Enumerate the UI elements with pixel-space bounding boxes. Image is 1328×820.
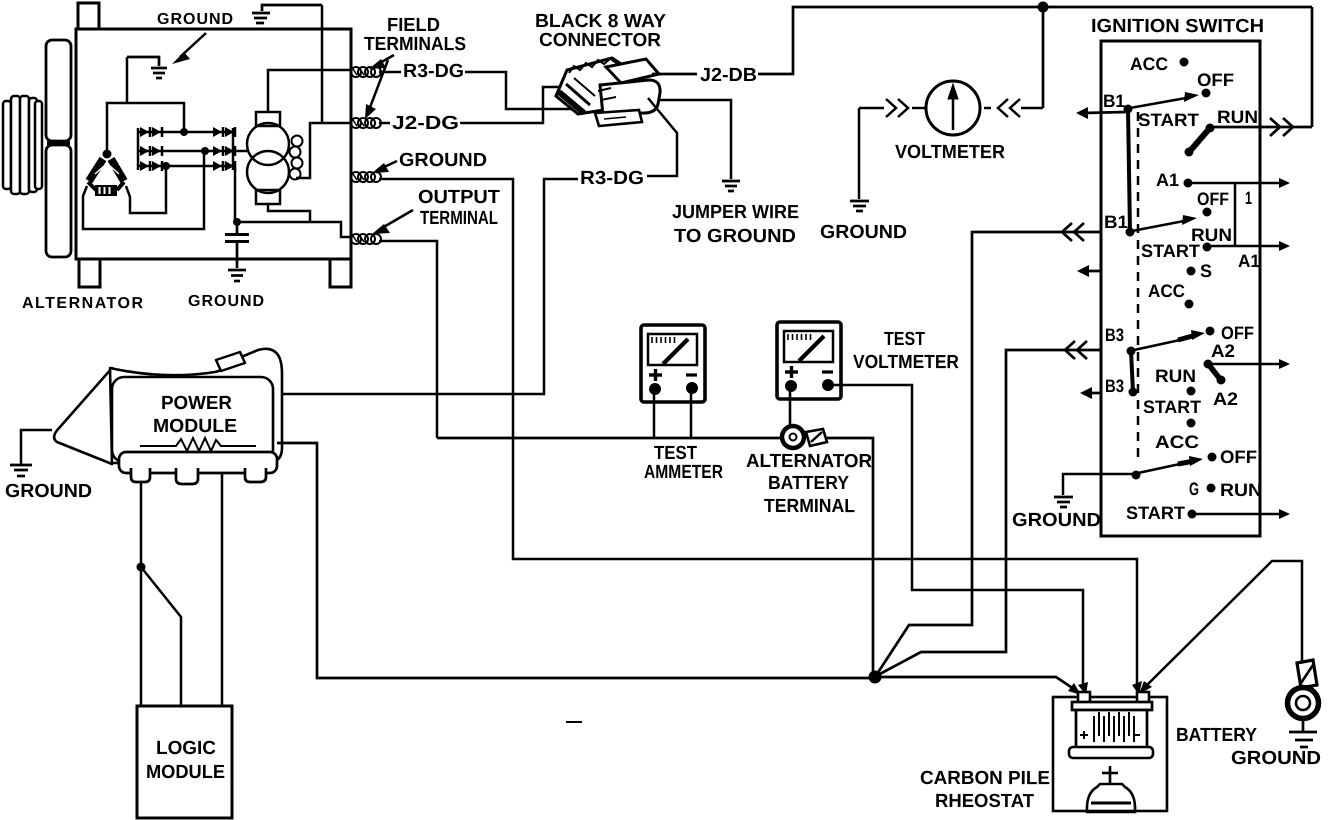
switch lever B1-OFF row2 (1132, 215, 1197, 231)
svg-text:GROUND: GROUND (5, 481, 92, 502)
svg-text:CARBON PILE: CARBON PILE (920, 768, 1050, 789)
wire output terminal to ammeter bus (379, 241, 437, 438)
node contact B3 row5 (1129, 388, 1138, 397)
wire J2-DB connector to top bus (652, 7, 1312, 74)
wire ammeter plus lead (653, 393, 656, 438)
svg-text:ALTERNATOR: ALTERNATOR (22, 295, 145, 312)
svg-text:START: START (1126, 503, 1185, 523)
switch lever RUN thick (1190, 129, 1209, 151)
node contact A2 lever end (1217, 376, 1226, 385)
wire rectifier output bus down (234, 168, 237, 221)
wire B3 link row4-row5 (thick) (1131, 351, 1133, 392)
terminal field 2 (J2-DG) (351, 118, 381, 128)
wire A2 exit (1212, 359, 1290, 369)
wire output node to output terminal (237, 222, 352, 237)
wire stator right phase to rectifier row3 (126, 167, 166, 213)
svg-text:RUN: RUN (1155, 366, 1196, 386)
svg-text:BATTERY: BATTERY (1176, 725, 1257, 746)
wire power module pin1 to logic module (140, 482, 143, 706)
label CARBON PILE RHEOSTAT (920, 768, 1050, 812)
svg-text:BLACK 8 WAY: BLACK 8 WAY (535, 11, 666, 32)
node contact A2 row4 (1204, 360, 1213, 369)
svg-text:GROUND: GROUND (399, 150, 487, 171)
node contact B1 row1 (1124, 105, 1133, 114)
label LOGIC MODULE (146, 738, 225, 783)
node pin1 branch (137, 563, 146, 572)
terminal ground (351, 172, 381, 182)
wire rotor top to field terminal R3-DG (268, 70, 352, 112)
wire voltmeter right chevrons (984, 99, 1043, 117)
stator winding (delta) (88, 150, 124, 197)
label TEST VOLTMETER (853, 329, 959, 373)
arrow B3 row5 exit left (1080, 387, 1101, 399)
wire START row7 exit (1196, 509, 1290, 519)
wire voltmeter left to ground (859, 99, 926, 199)
svg-text:AMMETER: AMMETER (644, 462, 723, 483)
alternator pulley (3, 96, 42, 194)
alternator case U1 (76, 3, 351, 287)
node rectifier row1 (180, 128, 188, 136)
wire rotor bottom to output node (268, 204, 310, 222)
svg-text:R3-DG: R3-DG (580, 168, 644, 189)
svg-text:RUN: RUN (1220, 480, 1262, 500)
node contact ACC row1 (1180, 58, 1189, 67)
svg-text:OFF: OFF (1197, 189, 1229, 209)
terminal output (351, 234, 381, 244)
battery polarity marks (1080, 731, 1140, 739)
svg-text:GROUND: GROUND (820, 222, 907, 243)
label POWER MODULE (153, 393, 237, 437)
ground (below alternator) (228, 270, 246, 281)
connector 8-way pictorial (556, 58, 660, 126)
node contact ACC row3 (1185, 300, 1194, 309)
svg-text:RHEOSTAT: RHEOSTAT (935, 791, 1034, 812)
svg-text:ALTERNATOR: ALTERNATOR (746, 451, 872, 472)
svg-text:START: START (1141, 241, 1200, 261)
arrow to field terminal 2 (365, 60, 388, 119)
arrow S exit left (1077, 265, 1101, 277)
wire battery negative to ground eyelet (1141, 561, 1302, 691)
wire B3 row4 to junction (878, 341, 1101, 675)
arrow B1 row1 exit left (1076, 107, 1126, 119)
svg-text:A1: A1 (1238, 251, 1260, 271)
svg-text:B3: B3 (1105, 376, 1124, 396)
ground (voltmeter) (850, 201, 869, 211)
node contact RUN row7 (1207, 484, 1216, 493)
svg-text:FIELD: FIELD (387, 15, 440, 36)
svg-text:TERMINAL: TERMINAL (420, 208, 498, 229)
wire test voltmeter minus to battery positive (832, 385, 1083, 686)
battery plates (1094, 712, 1134, 742)
power module flange and pins (119, 452, 277, 484)
switch lever B3-OFF row4 (thick) (1134, 327, 1215, 351)
svg-text:GROUND: GROUND (188, 293, 265, 310)
rotor brush spring (290, 136, 303, 180)
node contact lever top (1206, 124, 1215, 133)
svg-text:A2: A2 (1213, 389, 1238, 409)
wire RUN row2 exit (1211, 241, 1290, 251)
wire eyelet to junction (826, 438, 873, 674)
arrow from GROUND label to inner ground (172, 33, 206, 64)
wire test voltmeter plus to eyelet (789, 390, 792, 426)
svg-text:MODULE: MODULE (153, 416, 237, 437)
svg-text:TO GROUND: TO GROUND (674, 226, 796, 247)
terminal field 1 (R3-DG) (351, 67, 381, 77)
svg-text:GROUND: GROUND (1231, 748, 1321, 769)
switch lever ground-OFF row6 (1138, 456, 1203, 473)
test voltmeter M3 (777, 322, 841, 399)
wire ammeter minus lead (690, 393, 693, 438)
node rectifier row2 (201, 147, 209, 155)
wire power module right foot to junction (277, 443, 869, 678)
svg-text:BATTERY: BATTERY (768, 473, 849, 494)
svg-text:S: S (1200, 261, 1212, 281)
arrowhead battery positive (voltmeter wire) (1078, 682, 1088, 695)
wire top bus to voltmeter (1042, 7, 1045, 108)
rectifier diodes (140, 127, 235, 171)
svg-text:ACC: ACC (1148, 281, 1185, 301)
rotor field coil (247, 112, 289, 204)
wire junction to battery positive (875, 677, 1077, 691)
node rectifier row3 (162, 162, 170, 170)
ignition switch box S1 (1101, 41, 1260, 536)
svg-text:VOLTMETER: VOLTMETER (853, 352, 959, 373)
label FIELD TERMINALS (364, 15, 466, 55)
wire top ground into case (321, 5, 324, 123)
arrow to field terminal 1 (369, 55, 394, 69)
node capacitor junction (233, 218, 241, 226)
wire R3-DG terminal to connector (379, 72, 578, 109)
arrowhead battery negative (case ground wire) (1132, 681, 1142, 695)
svg-text:IGNITION SWITCH: IGNITION SWITCH (1091, 16, 1264, 37)
ground (battery) (1289, 719, 1317, 747)
svg-text:B3: B3 (1105, 325, 1124, 345)
svg-text:TERMINALS: TERMINALS (364, 34, 466, 55)
logic module box (137, 706, 232, 818)
ground (ignition switch) (1054, 497, 1073, 507)
svg-text:VOLTMETER: VOLTMETER (895, 142, 1005, 163)
node contact START row7 (1188, 510, 1197, 519)
stray dash (566, 721, 582, 723)
voltmeter M1 (926, 81, 980, 135)
alternator battery terminal eyelet (782, 426, 827, 448)
wire R3-DG connector to power module (282, 98, 677, 394)
ground (power module) (10, 465, 32, 476)
ground (inside alternator) (127, 57, 167, 78)
svg-text:B1: B1 (1104, 212, 1128, 232)
switch lever B1-OFF row1 (1130, 92, 1199, 108)
node contact OFF row6 (1208, 453, 1217, 462)
wire A1 sub-box (1234, 183, 1237, 246)
svg-text:ACC: ACC (1130, 54, 1168, 74)
svg-text:LOGIC: LOGIC (156, 738, 216, 759)
battery ground eyelet (1288, 660, 1319, 719)
svg-text:TERMINAL: TERMINAL (764, 496, 855, 517)
node contact lever bottom (1185, 148, 1194, 157)
label OUTPUT TERMINAL (418, 187, 500, 229)
label BLACK 8 WAY CONNECTOR (535, 11, 666, 51)
svg-text:MODULE: MODULE (146, 762, 225, 783)
switch lever A2 thick (1209, 365, 1220, 379)
wire B1 row2 to junction (877, 223, 1101, 674)
wire field terminal J2-DG to brush (296, 123, 352, 178)
node main junction (869, 671, 882, 684)
label JUMPER WIRE TO GROUND (672, 202, 799, 247)
svg-text:JUMPER WIRE: JUMPER WIRE (672, 202, 799, 223)
capacitor C1 to ground (225, 222, 249, 268)
wire connector jumper to ground (658, 100, 731, 179)
ground (top of alternator) (252, 5, 322, 23)
carbon pile rheostat box (1053, 697, 1167, 811)
node contact RUN row5 (1187, 387, 1196, 396)
node contact ground lever (1132, 471, 1141, 480)
power module outline (54, 349, 282, 464)
svg-text:OFF: OFF (1197, 70, 1234, 90)
svg-text:OFF: OFF (1220, 447, 1257, 467)
svg-text:GROUND: GROUND (1012, 510, 1101, 531)
label ALTERNATOR BATTERY TERMINAL (746, 451, 872, 517)
arrow to output terminal (372, 210, 413, 234)
svg-text:1: 1 (1245, 188, 1252, 208)
node contact RUN row2 (1203, 243, 1212, 252)
wire power module pin2 to logic module (221, 473, 224, 706)
svg-text:OUTPUT: OUTPUT (418, 187, 500, 208)
node contact B1 row2 (1126, 228, 1135, 237)
arrow to ground terminal (372, 161, 397, 173)
ground (jumper wire) (722, 181, 740, 191)
battery BT1 (1069, 692, 1153, 758)
alternator fan plate (46, 40, 71, 257)
node contact OFF row1 (1202, 89, 1211, 98)
power module zigzag (140, 438, 256, 451)
wire stator left phase to rectifier row2 (83, 152, 204, 229)
svg-text:G: G (1189, 479, 1199, 499)
svg-text:START: START (1143, 397, 1201, 417)
test ammeter M2 (641, 325, 705, 402)
svg-text:R3-DG: R3-DG (403, 61, 464, 82)
svg-text:CONNECTOR: CONNECTOR (539, 30, 661, 51)
wire inner ground to stator bus (126, 57, 129, 104)
arrowhead battery negative (eyelet wire) (1139, 681, 1152, 694)
svg-text:START: START (1138, 110, 1199, 130)
node contact B3 row4 (1127, 347, 1136, 356)
wire ground lever to ground (1063, 474, 1134, 495)
svg-text:J2-DB: J2-DB (700, 65, 757, 86)
node contact A1 (1184, 179, 1193, 188)
svg-text:TEST: TEST (654, 443, 697, 464)
ignition switch dashed divider (1137, 112, 1140, 464)
node contact START row5 (1187, 419, 1196, 428)
node contact S (1187, 267, 1196, 276)
wire rectifier to rotor brush (233, 150, 247, 153)
svg-text:RUN: RUN (1217, 107, 1258, 127)
node top bus junction (1038, 2, 1049, 13)
label TEST AMMETER (644, 443, 723, 483)
svg-text:J2-DG: J2-DG (392, 113, 459, 134)
svg-text:ACC: ACC (1155, 432, 1199, 452)
svg-text:POWER: POWER (161, 393, 232, 414)
wire pin1 branch to logic module (141, 567, 181, 706)
wire power module nose to ground (21, 430, 52, 464)
wire RUN row1 to top bus (1214, 7, 1312, 136)
arrowhead battery positive (junction wire) (1068, 683, 1081, 695)
carbon pile element (1087, 766, 1135, 812)
svg-text:A2: A2 (1211, 341, 1235, 361)
wire A1 exit (1192, 178, 1290, 188)
svg-text:TEST: TEST (884, 329, 925, 350)
wire J2-DG terminal to connector (379, 87, 566, 123)
rectifier bridge CR1 (138, 128, 233, 170)
svg-text:OFF: OFF (1221, 323, 1254, 343)
svg-text:B1: B1 (1103, 91, 1125, 111)
wire B1 link row1-row2 (thick) (1128, 109, 1130, 232)
wire stator top to rectifier row1 (107, 103, 184, 153)
svg-text:A1: A1 (1156, 170, 1179, 190)
svg-text:GROUND: GROUND (157, 11, 234, 28)
node contact OFF row2 (1203, 208, 1212, 217)
wire ground terminal to battery negative (379, 179, 1137, 688)
wire ammeter bus (437, 437, 781, 440)
